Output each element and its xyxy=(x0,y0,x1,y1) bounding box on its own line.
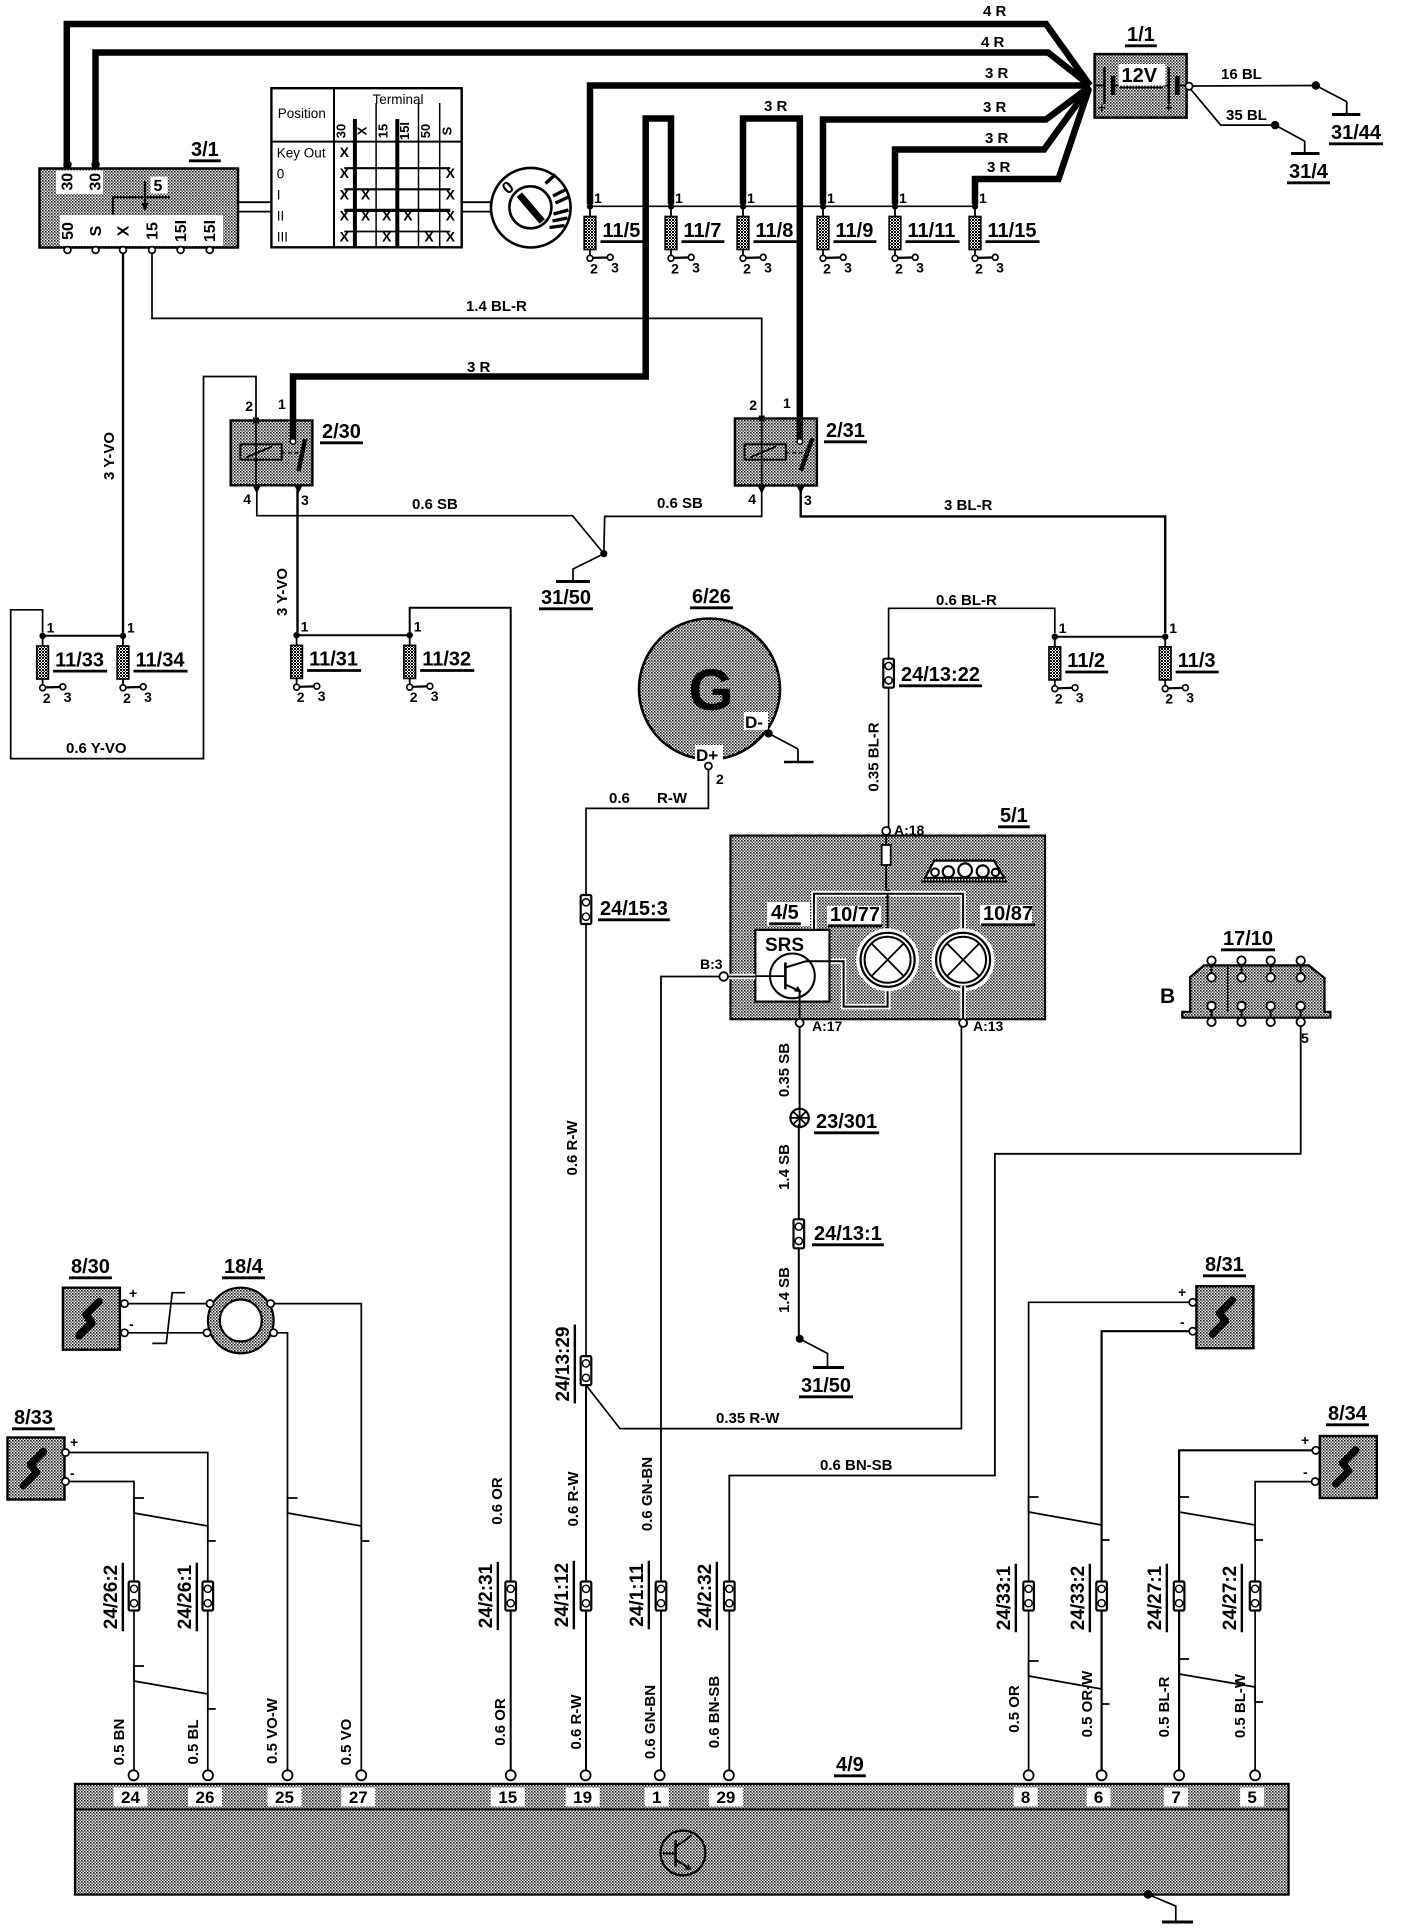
svg-text:3: 3 xyxy=(1076,690,1084,706)
twisted pair marker 33 upper xyxy=(1029,1497,1110,1540)
svg-text:0.5 BL-W: 0.5 BL-W xyxy=(1232,1673,1249,1738)
lamp 10/77 xyxy=(856,928,919,991)
central electronic module 4/9 xyxy=(75,1784,1289,1895)
table row 0 bus xyxy=(344,167,450,169)
svg-text:2: 2 xyxy=(749,397,757,413)
svg-text:0.35 R-W: 0.35 R-W xyxy=(716,1410,780,1427)
wire 3R battery feed to fuse 11/5 xyxy=(590,86,1090,205)
svg-text:3: 3 xyxy=(844,259,852,275)
svg-text:1: 1 xyxy=(594,190,602,206)
loudspeaker 8/33 xyxy=(8,1438,65,1500)
svg-text:50: 50 xyxy=(418,124,433,138)
svg-text:8/33: 8/33 xyxy=(14,1407,53,1429)
loudspeaker 8/30 xyxy=(63,1288,120,1350)
svg-text:11/34: 11/34 xyxy=(136,649,186,671)
wire 0.6 BN-SB 17/10 pin 5 to 4/9 pin 29 xyxy=(729,1026,1300,1770)
svg-text:5/1: 5/1 xyxy=(1000,805,1028,827)
loudspeaker 8/34 terminals xyxy=(1312,1447,1319,1454)
svg-text:+: + xyxy=(70,1434,78,1450)
svg-text:2: 2 xyxy=(743,260,751,276)
svg-text:2: 2 xyxy=(823,260,831,276)
svg-text:12V: 12V xyxy=(1122,65,1158,87)
svg-text:11/11: 11/11 xyxy=(908,220,956,242)
svg-text:24/27:2: 24/27:2 xyxy=(1220,1566,1241,1630)
svg-text:2: 2 xyxy=(1165,691,1173,707)
ground 31/50 lower xyxy=(796,1335,804,1343)
svg-text:2: 2 xyxy=(245,398,253,414)
svg-text:24/33:1: 24/33:1 xyxy=(994,1565,1015,1630)
loudspeaker 8/34 xyxy=(1320,1436,1377,1498)
wire 1.4 SB upper xyxy=(798,1124,800,1220)
5/1 internal junction xyxy=(884,890,892,898)
svg-text:0.5 VO-W: 0.5 VO-W xyxy=(264,1697,281,1764)
wire 0.5 OR 8/31 plus to 4/9 pin 8 xyxy=(1029,1302,1190,1770)
5/1 terminal A:13 xyxy=(959,1019,967,1027)
fuse bus 11/31-11/32 xyxy=(297,634,410,636)
svg-text:Terminal: Terminal xyxy=(372,92,423,107)
4/9 internal transistor symbol xyxy=(661,1831,706,1876)
svg-text:3: 3 xyxy=(916,259,924,275)
svg-text:29: 29 xyxy=(716,1788,735,1807)
svg-text:X: X xyxy=(446,186,456,202)
svg-text:10/87: 10/87 xyxy=(983,903,1033,925)
svg-text:27: 27 xyxy=(349,1788,368,1807)
svg-text:4: 4 xyxy=(243,491,251,507)
svg-text:24/13:1: 24/13:1 xyxy=(814,1223,882,1245)
svg-text:2: 2 xyxy=(123,690,131,706)
svg-text:24/13:22: 24/13:22 xyxy=(901,664,980,686)
svg-text:30: 30 xyxy=(60,173,77,191)
svg-text:15I: 15I xyxy=(173,220,190,242)
svg-text:3: 3 xyxy=(611,259,619,275)
wire 3R bridge fuse 11/7 to relay 2/30 pin 1 xyxy=(293,119,671,441)
svg-text:24/27:1: 24/27:1 xyxy=(1145,1565,1166,1630)
svg-text:1: 1 xyxy=(1169,620,1177,636)
svg-text:3 R: 3 R xyxy=(985,130,1009,147)
svg-text:5: 5 xyxy=(1301,1030,1309,1046)
svg-text:16 BL: 16 BL xyxy=(1221,66,1262,83)
fuse 11/34 xyxy=(120,633,126,639)
wire 0.35 BL-R 24/13:22 to 5/1 A:18 xyxy=(888,688,890,828)
svg-text:X: X xyxy=(340,229,350,245)
table row II bus xyxy=(344,209,450,212)
svg-text:2/31: 2/31 xyxy=(826,420,865,442)
svg-text:X: X xyxy=(340,207,350,223)
4/9 pin 25 terminal xyxy=(283,1770,293,1780)
4/9 pin 7 terminal xyxy=(1174,1770,1184,1780)
4/9 pin 1 terminal xyxy=(655,1770,665,1780)
svg-text:X: X xyxy=(340,165,350,181)
wire 35 BL xyxy=(1191,89,1276,125)
fuse 11/7 xyxy=(668,203,674,209)
fuse 11/5 xyxy=(587,203,593,209)
relay 2/30 xyxy=(231,421,313,486)
svg-text:50: 50 xyxy=(60,222,77,240)
svg-text:24/13:29: 24/13:29 xyxy=(553,1326,574,1401)
svg-text:X: X xyxy=(340,186,350,202)
5/1 terminal A:18 xyxy=(882,827,890,835)
wire 3 Y-VO relay 2/30 pin 3 to fuse 11/31 xyxy=(296,490,298,632)
svg-text:0.6 GN-BN: 0.6 GN-BN xyxy=(642,1685,659,1759)
svg-text:0.6 R-W: 0.6 R-W xyxy=(565,1471,582,1527)
svg-text:0.5 BN: 0.5 BN xyxy=(111,1719,128,1766)
svg-text:3: 3 xyxy=(996,259,1004,275)
svg-text:3: 3 xyxy=(1186,690,1194,706)
fuse 11/3 xyxy=(1162,634,1168,640)
svg-text:24/2:32: 24/2:32 xyxy=(695,1564,716,1628)
twisted pair marker 24/26 upper xyxy=(134,1498,216,1541)
svg-text:SRS: SRS xyxy=(765,935,804,956)
svg-text:X: X xyxy=(446,207,456,223)
svg-text:3: 3 xyxy=(804,492,812,508)
svg-text:Key Out: Key Out xyxy=(277,146,326,161)
svg-text:4/9: 4/9 xyxy=(836,1754,864,1776)
fuse 11/2 xyxy=(1052,634,1058,640)
svg-text:23/301: 23/301 xyxy=(816,1111,877,1133)
svg-text:III: III xyxy=(277,230,288,245)
SRS unit 4/5 box xyxy=(755,930,829,1002)
svg-text:1: 1 xyxy=(675,190,683,206)
svg-text:X: X xyxy=(424,229,434,245)
svg-text:11/5: 11/5 xyxy=(603,220,641,242)
svg-text:A:18: A:18 xyxy=(894,822,925,838)
svg-text:0.6 R-W: 0.6 R-W xyxy=(564,1120,581,1176)
wire 3R battery feed to fuse 11/11 xyxy=(895,88,1089,205)
svg-text:11/33: 11/33 xyxy=(55,649,104,671)
connector 24/13:22 xyxy=(883,659,894,688)
svg-text:24/2:31: 24/2:31 xyxy=(476,1563,497,1628)
wire table to key link xyxy=(462,201,492,203)
ground 31/50 xyxy=(600,550,607,557)
fuse bus row 1 xyxy=(590,205,975,207)
svg-text:2: 2 xyxy=(590,260,598,276)
wire 0.6 BL-R fuse 11/2 to 24/13:22 xyxy=(889,608,1055,659)
twisted pair marker 33 lower xyxy=(1029,1661,1110,1704)
svg-text:11/2: 11/2 xyxy=(1067,650,1105,672)
svg-text:S: S xyxy=(88,225,105,236)
svg-text:35 BL: 35 BL xyxy=(1226,107,1267,124)
svg-text:1: 1 xyxy=(301,619,309,635)
svg-text:3 R: 3 R xyxy=(983,99,1007,116)
relay 2/31 xyxy=(735,419,817,486)
svg-text:3 R: 3 R xyxy=(985,65,1009,82)
speaker 18/4 terminals xyxy=(206,1300,213,1307)
svg-text:S: S xyxy=(439,126,454,135)
wire 0.5 BN 8/33 minus to 4/9 pin 24 xyxy=(69,1482,134,1771)
connector 24/2:31 xyxy=(505,1582,516,1611)
svg-text:0.6 SB: 0.6 SB xyxy=(657,495,703,512)
svg-text:3 R: 3 R xyxy=(764,98,788,115)
svg-text:11/15: 11/15 xyxy=(988,220,1037,242)
svg-text:A:13: A:13 xyxy=(973,1018,1004,1034)
4/9 pin 15 terminal xyxy=(506,1770,516,1780)
svg-text:X: X xyxy=(446,229,456,245)
lamp 10/77 label xyxy=(827,906,881,926)
svg-text:2: 2 xyxy=(895,260,903,276)
svg-text:0.6 R-W: 0.6 R-W xyxy=(568,1694,585,1750)
svg-text:3: 3 xyxy=(144,689,152,705)
svg-text:17/10: 17/10 xyxy=(1223,928,1273,950)
wire 16 BL xyxy=(1193,85,1316,88)
wire 0.6 R-W to 4/9 pin 19 xyxy=(585,1385,587,1770)
svg-text:-: - xyxy=(1303,1464,1308,1480)
wire 0.6 GN-BN B:3 to 4/9 pin 1 xyxy=(661,977,719,1771)
svg-text:1.4 BL-R: 1.4 BL-R xyxy=(466,298,527,315)
svg-text:0.5 BL-R: 0.5 BL-R xyxy=(1156,1676,1173,1737)
ground 31/44 xyxy=(1312,81,1320,89)
connector 24/1:11 xyxy=(656,1582,667,1611)
svg-text:11/3: 11/3 xyxy=(1178,650,1216,672)
5/1 top connector icon xyxy=(925,861,1004,878)
fuse 11/33 xyxy=(39,633,45,639)
svg-text:30: 30 xyxy=(88,173,105,191)
svg-text:4 R: 4 R xyxy=(981,34,1005,51)
svg-text:X: X xyxy=(355,126,370,135)
svg-text:X: X xyxy=(116,225,133,236)
svg-text:5: 5 xyxy=(154,178,163,195)
svg-text:B:3: B:3 xyxy=(700,956,723,972)
svg-text:1.4 SB: 1.4 SB xyxy=(776,1267,793,1313)
fuse 11/9 xyxy=(820,203,826,209)
svg-text:6/26: 6/26 xyxy=(692,586,731,608)
svg-text:2/30: 2/30 xyxy=(322,421,361,443)
lamp 10/87 label xyxy=(980,905,1032,925)
ground 31/4 xyxy=(1271,121,1279,129)
wire 0.5 BL-R 8/34 plus to 4/9 pin 7 xyxy=(1179,1450,1312,1770)
4/9 pin 24 terminal xyxy=(129,1770,139,1780)
svg-text:25: 25 xyxy=(275,1788,294,1807)
svg-text:D-: D- xyxy=(745,713,763,732)
svg-text:X: X xyxy=(446,165,456,181)
svg-text:24/26:2: 24/26:2 xyxy=(101,1565,122,1629)
svg-text:8/31: 8/31 xyxy=(1205,1254,1244,1276)
svg-text:Position: Position xyxy=(278,106,326,121)
wire 1.4 SB lower xyxy=(798,1249,800,1339)
svg-text:2: 2 xyxy=(43,690,51,706)
wire 0.5 BL-W 8/34 minus to 4/9 pin 5 xyxy=(1255,1482,1312,1771)
svg-text:0.5 BL: 0.5 BL xyxy=(185,1719,202,1764)
wire 0.5 VO-W speaker 18/4 to 4/9 pin 25 xyxy=(277,1333,287,1771)
wire 2/30 pin 2 circuit 0.6 Y-VO xyxy=(11,377,256,759)
5/1 terminal A:17 xyxy=(799,992,801,1019)
svg-text:0.35 BL-R: 0.35 BL-R xyxy=(866,722,883,791)
connector 24/33:2 xyxy=(1096,1582,1107,1611)
svg-text:0.6 BN-SB: 0.6 BN-SB xyxy=(820,1457,893,1474)
svg-text:I: I xyxy=(277,188,281,203)
4/9 ground xyxy=(1144,1890,1153,1899)
svg-text:1: 1 xyxy=(127,619,135,635)
svg-text:0.5 OR: 0.5 OR xyxy=(1006,1685,1023,1733)
svg-text:X: X xyxy=(382,229,392,245)
svg-text:24/1:11: 24/1:11 xyxy=(627,1563,648,1627)
fuse bus 11/33-11/34 xyxy=(43,635,123,637)
5/1 internal fuse element xyxy=(885,835,887,845)
splice 23/301 xyxy=(790,1109,808,1127)
svg-text:3: 3 xyxy=(692,259,700,275)
4/9 pin 29 terminal xyxy=(724,1770,734,1780)
wire 4R battery feed from 3/1 terminal 30b xyxy=(96,53,1091,169)
svg-text:3 Y-VO: 3 Y-VO xyxy=(101,432,118,480)
svg-text:0: 0 xyxy=(277,167,285,182)
svg-text:2: 2 xyxy=(410,689,418,705)
wire 3R battery feed to fuse 11/9 xyxy=(823,87,1090,205)
svg-text:1: 1 xyxy=(278,396,286,412)
SRS unit 4/5 label xyxy=(767,902,810,926)
svg-text:11/9: 11/9 xyxy=(836,220,874,242)
ignition switch 3/1 xyxy=(40,169,239,248)
4/9 pin 26 terminal xyxy=(203,1770,213,1780)
svg-text:11/8: 11/8 xyxy=(756,220,794,242)
svg-text:+: + xyxy=(1098,100,1106,115)
svg-text:1: 1 xyxy=(747,190,755,206)
svg-text:18/4: 18/4 xyxy=(224,1256,264,1278)
svg-text:+: + xyxy=(1165,100,1173,115)
fuse 11/11 xyxy=(892,203,898,209)
svg-text:X: X xyxy=(403,207,413,223)
4/9 pin 5 terminal xyxy=(1250,1770,1260,1780)
svg-text:15: 15 xyxy=(376,124,391,138)
svg-text:24: 24 xyxy=(121,1788,140,1807)
svg-text:15I: 15I xyxy=(397,122,412,140)
svg-text:3/1: 3/1 xyxy=(191,139,219,161)
loudspeaker 8/31 xyxy=(1196,1286,1253,1348)
wire 0.6 R-W from D+ to 24/15:3 xyxy=(586,770,708,895)
svg-text:2: 2 xyxy=(975,260,983,276)
wire 3/1 to table link xyxy=(238,201,272,203)
svg-text:4: 4 xyxy=(748,491,756,507)
ignition switch 3/1 internal switch symbol xyxy=(112,196,170,198)
svg-text:31/50: 31/50 xyxy=(801,1375,851,1397)
SRS transistor xyxy=(770,954,815,999)
4/9 pin 6 terminal xyxy=(1097,1770,1107,1780)
svg-text:0.6 GN-BN: 0.6 GN-BN xyxy=(639,1457,656,1531)
lamp 10/87 xyxy=(932,928,995,991)
connector 24/2:32 xyxy=(724,1582,735,1611)
5/1 terminal B:3 xyxy=(728,974,755,980)
svg-text:0.6 OR: 0.6 OR xyxy=(489,1477,506,1525)
svg-text:3 R: 3 R xyxy=(467,359,491,376)
svg-text:3: 3 xyxy=(318,688,326,704)
svg-text:0.5 OR-W: 0.5 OR-W xyxy=(1079,1670,1096,1738)
svg-text:3: 3 xyxy=(764,259,772,275)
5/1 internal wires xyxy=(814,894,963,931)
wire 0.35 R-W 24/13:29 to A:13 xyxy=(586,1027,961,1429)
loudspeaker 8/31 terminals xyxy=(1189,1299,1196,1306)
wire 0.6 R-W continues to 24/13:29 xyxy=(585,924,587,1357)
generator 6/26 xyxy=(639,619,780,760)
svg-text:-: - xyxy=(129,1316,134,1332)
svg-text:-: - xyxy=(70,1465,75,1481)
battery right terminal xyxy=(1185,83,1192,90)
connector 24/13:1 xyxy=(794,1219,805,1248)
fuse 11/15 xyxy=(972,203,978,209)
svg-text:15: 15 xyxy=(498,1788,517,1807)
svg-text:X: X xyxy=(340,144,350,160)
ignition position table xyxy=(271,88,461,247)
twisted pair marker 27 upper xyxy=(1179,1497,1263,1540)
svg-text:1: 1 xyxy=(899,190,907,206)
connector 24/15:3 xyxy=(581,895,592,924)
wire 0.6 OR fuse 11/32 to 4/9 pin 15 xyxy=(410,608,511,1771)
svg-text:3: 3 xyxy=(431,688,439,704)
svg-text:31/50: 31/50 xyxy=(541,587,591,609)
4/9 pin 27 terminal xyxy=(356,1770,366,1780)
wire 0.35 SB A:17 down xyxy=(799,1027,801,1111)
svg-text:R-W: R-W xyxy=(657,790,688,807)
svg-text:4/5: 4/5 xyxy=(771,902,799,924)
twisted pair marker 27 lower xyxy=(1179,1659,1263,1702)
svg-text:X: X xyxy=(361,207,371,223)
svg-text:0.6 Y-VO: 0.6 Y-VO xyxy=(66,740,127,757)
svg-text:2: 2 xyxy=(716,771,724,787)
wire 0.5 VO speaker 18/4 to 4/9 pin 27 xyxy=(274,1304,361,1771)
svg-text:1: 1 xyxy=(1059,620,1067,636)
svg-text:24/15:3: 24/15:3 xyxy=(600,898,668,920)
connector 24/13:29 xyxy=(581,1356,592,1385)
fuse 11/31 xyxy=(293,632,299,638)
svg-text:0.6 OR: 0.6 OR xyxy=(492,1698,509,1746)
svg-text:-: - xyxy=(1180,1314,1185,1330)
svg-text:0.6 BL-R: 0.6 BL-R xyxy=(936,592,997,609)
svg-text:0.35 SB: 0.35 SB xyxy=(776,1043,793,1097)
wire 4R battery feed from 3/1 terminal 30a xyxy=(67,24,1090,168)
key position I mark xyxy=(546,175,556,184)
twisted pair marker VO pair xyxy=(288,1498,370,1541)
loudspeaker 8/30 terminals xyxy=(121,1300,128,1307)
connector 24/26:1 xyxy=(203,1582,214,1611)
table row I bus xyxy=(344,188,450,190)
svg-text:15I: 15I xyxy=(202,220,219,242)
svg-text:11/32: 11/32 xyxy=(422,649,471,671)
svg-text:11/7: 11/7 xyxy=(684,220,722,242)
4/9 pin 8 terminal xyxy=(1024,1770,1034,1780)
svg-text:31/44: 31/44 xyxy=(1331,122,1382,144)
svg-text:19: 19 xyxy=(573,1788,592,1807)
generator D- terminal and ground xyxy=(744,712,768,730)
svg-text:8: 8 xyxy=(1021,1788,1030,1807)
svg-text:G: G xyxy=(688,658,733,723)
svg-text:1.4 SB: 1.4 SB xyxy=(776,1144,793,1190)
key position II marks xyxy=(553,190,566,197)
svg-text:1: 1 xyxy=(979,190,987,206)
svg-text:1: 1 xyxy=(652,1788,661,1807)
svg-text:3: 3 xyxy=(64,689,72,705)
connector 24/26:2 xyxy=(129,1582,140,1611)
battery 1/1 xyxy=(1095,54,1187,118)
svg-text:11/31: 11/31 xyxy=(309,649,358,671)
wire 3R bridge fuse 11/8 to relay 2/31 pin 1 xyxy=(743,119,800,441)
svg-text:10/77: 10/77 xyxy=(830,904,880,926)
svg-text:0.6 SB: 0.6 SB xyxy=(412,496,458,513)
table row III bus xyxy=(344,231,450,233)
svg-text:+: + xyxy=(129,1285,137,1301)
twisted pair marker 24/26 lower xyxy=(134,1666,216,1709)
wire 0.6 SB relay 2/30 pin 4 to ground xyxy=(257,491,762,554)
svg-text:+: + xyxy=(1301,1432,1309,1448)
loudspeaker 8/33 terminals xyxy=(62,1449,69,1456)
wire 3 Y-VO from 3/1 terminal X to fuse 11/34 xyxy=(122,254,124,633)
svg-text:26: 26 xyxy=(196,1788,215,1807)
svg-text:+: + xyxy=(1178,1284,1186,1300)
svg-text:24/33:2: 24/33:2 xyxy=(1068,1566,1089,1630)
key position III marks xyxy=(554,210,569,214)
fuse bus 11/2-11/3 xyxy=(1055,636,1165,638)
wire 8/30 minus to horn 18/4 xyxy=(128,1332,203,1334)
connector 24/1:12 xyxy=(581,1582,592,1611)
lamp 10/87 lower wire to A:13 xyxy=(960,986,966,1019)
svg-text:1: 1 xyxy=(47,619,55,635)
svg-text:X: X xyxy=(382,207,392,223)
